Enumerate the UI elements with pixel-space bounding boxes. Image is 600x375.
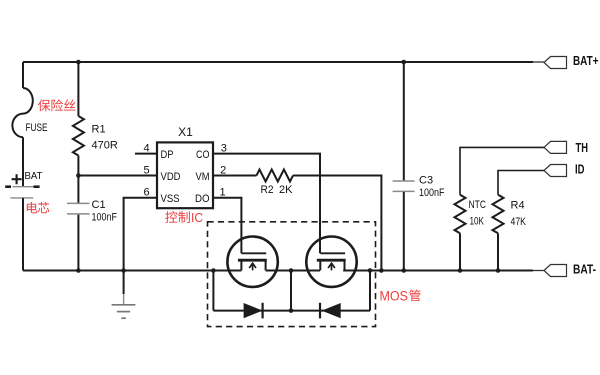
- node junction ground / VSS bottom rail: [121, 268, 126, 273]
- svg-text:VSS: VSS: [161, 193, 180, 205]
- pin stub DP pin 4: [135, 153, 157, 155]
- svg-text:VM: VM: [196, 171, 210, 183]
- label 电芯 (cell) red: [27, 202, 38, 213]
- fuse F1: [12, 88, 32, 137]
- svg-text:DP: DP: [161, 149, 174, 161]
- node junction C1 bottom rail: [76, 268, 81, 273]
- resistor R4 47K: [493, 195, 504, 234]
- wire R1 top: [77, 62, 79, 116]
- op IC box U=X1 control IC: [157, 142, 213, 208]
- wire VM to bottom rail: [293, 176, 381, 271]
- label 控制IC red: [165, 211, 177, 223]
- label 保险丝 (fuse) red: [38, 99, 50, 111]
- capacitor C3 100nF: [393, 180, 415, 182]
- ground symbol: [123, 271, 125, 295]
- battery BAT (cell): [13, 186, 34, 188]
- svg-text:NTC: NTC: [469, 199, 487, 211]
- svg-text:FUSE: FUSE: [26, 122, 48, 134]
- wire TH line: [460, 147, 544, 194]
- wire battery negative to bottom rail: [22, 198, 24, 271]
- wire top rail BAT+ net: [23, 61, 533, 63]
- svg-text:1: 1: [220, 186, 226, 198]
- svg-text:100nF: 100nF: [419, 187, 445, 199]
- wire NTC bottom: [459, 233, 461, 270]
- wire R4 bottom: [497, 233, 499, 270]
- diode D2 body diode: [322, 303, 341, 318]
- wire diode branch left riser: [212, 271, 214, 311]
- svg-text:100nF: 100nF: [92, 212, 118, 224]
- svg-text:R1: R1: [92, 124, 106, 136]
- transistor Q1 (N-MOSFET): [227, 237, 277, 287]
- terminal ID: [544, 165, 567, 177]
- node junction VM bottom rail: [379, 268, 384, 273]
- svg-text:MOS: MOS: [380, 289, 409, 304]
- svg-text:X1: X1: [178, 125, 193, 139]
- svg-text:DO: DO: [195, 193, 210, 205]
- wire R1 bottom / C1 top: [77, 156, 79, 204]
- svg-text:BAT+: BAT+: [573, 54, 599, 68]
- svg-text:2K: 2K: [279, 184, 293, 196]
- transistor Q2 (N-MOSFET): [306, 237, 356, 287]
- svg-text:3: 3: [221, 142, 227, 154]
- wire C3 bottom: [403, 192, 405, 271]
- svg-text:ID: ID: [575, 163, 585, 177]
- wire CO pin 3 to M2 gate: [213, 154, 320, 254]
- wire VSS pin 6 to ground: [124, 198, 157, 271]
- svg-text:6: 6: [143, 186, 149, 198]
- resistor NTC 10K: [455, 195, 466, 234]
- svg-text:47K: 47K: [511, 216, 527, 228]
- svg-text:5: 5: [143, 164, 149, 176]
- resistor R1 470R: [73, 116, 84, 156]
- wire DO pin 1 to M1 gate: [213, 198, 241, 254]
- svg-text:IC: IC: [191, 210, 203, 225]
- svg-text:BAT: BAT: [25, 170, 44, 182]
- svg-text:TH: TH: [576, 141, 589, 155]
- wire bottom rail BAT- net: [23, 270, 533, 272]
- wire diode branch bottom: [213, 310, 370, 312]
- svg-text:R2: R2: [261, 184, 274, 196]
- dashed box MOS pack: [208, 222, 376, 327]
- svg-text:C1: C1: [92, 199, 106, 211]
- wire ID line: [498, 171, 544, 195]
- node junction VDD tap: [76, 173, 81, 178]
- svg-text:C3: C3: [419, 175, 433, 187]
- terminal TH: [544, 141, 567, 153]
- svg-text:BAT-: BAT-: [573, 262, 596, 276]
- terminal BAT+: [544, 57, 567, 69]
- capacitor C1 100nF: [67, 202, 90, 204]
- svg-text:CO: CO: [196, 149, 210, 161]
- diode D1 body diode: [244, 303, 263, 318]
- wire C1 bottom: [77, 215, 79, 271]
- terminal BAT-: [544, 265, 567, 277]
- svg-text:470R: 470R: [92, 140, 118, 152]
- svg-text:VDD: VDD: [161, 171, 181, 183]
- wire C3 top: [403, 62, 405, 181]
- svg-text:4: 4: [143, 142, 149, 154]
- wire diode branch right riser: [369, 271, 371, 311]
- node junction R1 top rail: [76, 60, 81, 65]
- svg-text:10K: 10K: [470, 216, 485, 228]
- wire VDD pin 5: [78, 175, 157, 177]
- svg-text:R4: R4: [511, 200, 525, 212]
- resistor R2 2K: [257, 170, 294, 182]
- wire VM pin 2 lead: [213, 175, 257, 177]
- wire left vertical from top rail to fuse: [22, 62, 24, 88]
- wire diode branch center riser: [290, 271, 292, 311]
